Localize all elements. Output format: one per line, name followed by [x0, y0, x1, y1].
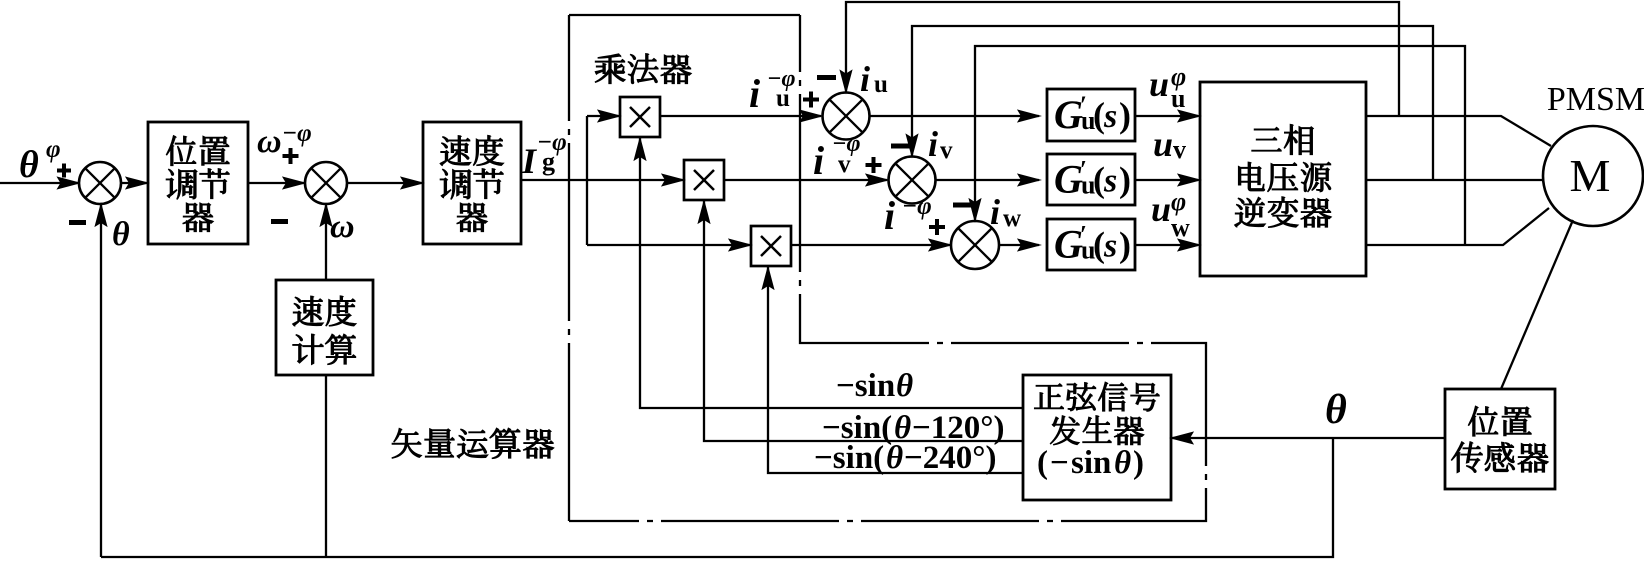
wire M1 to S3 [660, 110, 822, 122]
svg-text:θ: θ [1325, 387, 1347, 433]
label iw-ref [884, 193, 945, 238]
label minus S5 [953, 203, 972, 208]
svg-text:u: u [1149, 64, 1169, 104]
wire G3 to inverter [1135, 239, 1200, 251]
wire S4 to G2 [936, 174, 1041, 186]
svg-text:−sin(: −sin( [814, 440, 884, 476]
label Ig-ref [521, 129, 567, 181]
boundary vector operator dash-dot [569, 15, 1206, 521]
svg-text:θ: θ [1114, 445, 1131, 481]
svg-text:u: u [1171, 84, 1185, 113]
wire S1 to position regulator [121, 177, 148, 189]
label multiplier 乘法器 [595, 54, 691, 84]
label iv-ref [813, 131, 882, 183]
wire speed regulator to branch [521, 179, 587, 181]
svg-text:u: u [874, 71, 888, 98]
svg-text:i: i [813, 138, 824, 183]
svg-text:PMSM: PMSM [1547, 81, 1644, 118]
svg-text:i: i [749, 71, 760, 116]
block position sensor 位置传感器 [1445, 389, 1555, 489]
svg-text:g: g [542, 147, 555, 176]
label iu [860, 59, 888, 99]
wire branch vertical [586, 116, 588, 245]
svg-text:v: v [838, 151, 851, 178]
wire G2 to inverter [1135, 174, 1200, 186]
label iw [990, 192, 1021, 232]
label iu-ref [749, 66, 819, 116]
label omega-ref [257, 120, 312, 164]
wire theta feedback to S1 [95, 204, 107, 557]
svg-text:v: v [940, 137, 953, 164]
summing junction S5 [951, 221, 999, 269]
wire sine2 to M2 [698, 201, 1023, 441]
svg-text:sin: sin [1071, 445, 1111, 481]
label minus S2 [271, 219, 288, 224]
label uv [1153, 124, 1186, 164]
svg-text:): ) [1119, 225, 1131, 265]
label 矢量运算器 [392, 428, 553, 458]
svg-text:u: u [776, 85, 790, 112]
label theta sensor [1325, 387, 1347, 433]
block speed regulator 速度调节器 [423, 122, 521, 244]
summing junction S4 [889, 157, 936, 204]
block G1 [1047, 89, 1135, 141]
svg-text:G: G [1054, 222, 1083, 267]
svg-text:θ: θ [886, 440, 903, 476]
svg-text:ω: ω [330, 208, 355, 245]
label PMSM [1547, 81, 1644, 118]
svg-text:−φ: −φ [282, 120, 312, 147]
motor M PMSM [1543, 126, 1643, 226]
svg-text:I: I [521, 141, 538, 181]
wire S2 to speed regulator [347, 177, 423, 189]
svg-text:−: − [1050, 445, 1069, 481]
label minus S3 [817, 75, 836, 80]
svg-text:): ) [1119, 160, 1131, 200]
wire M3 to S5 [791, 239, 951, 251]
svg-text:−φ: −φ [902, 193, 932, 220]
multiplier M1 [620, 97, 660, 137]
svg-text:−sin: −sin [836, 368, 895, 404]
label uu [1149, 62, 1186, 113]
svg-text:(: ( [1037, 445, 1048, 481]
wire iv feedback [906, 26, 1433, 180]
wire branch to multiplier M1 [587, 110, 620, 122]
svg-text:ω: ω [257, 123, 282, 160]
svg-text:φ: φ [1171, 187, 1186, 216]
label omega feedback [330, 208, 355, 245]
wire sine3 to M3 [762, 267, 1023, 473]
label uw [1151, 187, 1190, 242]
label theta-ref [19, 136, 71, 186]
svg-text:G: G [1054, 92, 1083, 137]
multiplier M2 [684, 160, 724, 200]
svg-text:φ: φ [46, 136, 61, 163]
wire iw feedback [969, 46, 1465, 245]
wire speed calculator to S2 [320, 204, 332, 280]
svg-text:i: i [928, 124, 938, 164]
wire theta to bottom [101, 438, 1333, 557]
block inverter 三相电压源逆变器 [1200, 82, 1366, 276]
wire sine1 to M1 [634, 138, 1023, 408]
block sine generator 正弦信号发生器 [1023, 375, 1171, 500]
wire position regulator to S2 [248, 177, 305, 189]
block position regulator 位置调节器 [148, 122, 248, 244]
svg-text:s: s [1103, 98, 1117, 135]
svg-text:θ: θ [19, 144, 39, 186]
wire S5 to G3 [999, 239, 1040, 251]
svg-text:i: i [990, 192, 1000, 232]
wire input theta-ref [0, 177, 80, 189]
multiplier M3 [751, 226, 791, 266]
wire motor to position sensor [1501, 220, 1573, 389]
wire phase v to motor [1366, 179, 1543, 181]
svg-text:s: s [1103, 228, 1117, 265]
svg-text:): ) [1133, 445, 1144, 481]
svg-text:G: G [1054, 157, 1083, 202]
summing junction S3 [823, 93, 870, 140]
label -sin theta-120 [822, 410, 1005, 446]
block G3 [1047, 219, 1135, 270]
wire iu feedback [840, 2, 1399, 116]
wire theta sensor to sine generator [1171, 432, 1445, 444]
label theta feedback [112, 216, 130, 253]
wire omega feedback lower [325, 375, 327, 557]
wire M2 to S4 [724, 174, 888, 186]
label -sin theta [836, 368, 913, 404]
block speed calculator 速度计算 [276, 280, 373, 375]
summing junction S1 [79, 162, 121, 204]
wire phase u to motor [1366, 116, 1551, 146]
summing junction S2 [305, 162, 347, 204]
label minus S1 [69, 220, 86, 225]
svg-text:v: v [1173, 135, 1186, 164]
svg-text:u: u [1151, 189, 1171, 229]
svg-text:i: i [884, 193, 895, 238]
svg-text:w: w [1003, 205, 1021, 232]
svg-text:θ: θ [896, 368, 913, 404]
svg-text:M: M [1570, 150, 1611, 201]
svg-text:w: w [1171, 213, 1190, 242]
wire phase w to motor [1366, 208, 1549, 245]
wire branch to multiplier M2 [587, 174, 684, 186]
wire G1 to inverter [1135, 110, 1200, 122]
svg-text:θ: θ [112, 216, 130, 253]
svg-text:s: s [1103, 163, 1117, 200]
svg-text:i: i [860, 59, 870, 99]
wire S3 to G1 [870, 110, 1041, 122]
svg-text:−240°): −240°) [904, 440, 997, 476]
wire branch to multiplier M3 [587, 239, 751, 251]
label minus S4 [891, 144, 911, 149]
svg-text:u: u [1153, 124, 1173, 164]
label iv [928, 124, 953, 164]
label -sin theta-240 [814, 440, 997, 476]
svg-text:): ) [1119, 95, 1131, 135]
block G2 [1047, 154, 1135, 205]
